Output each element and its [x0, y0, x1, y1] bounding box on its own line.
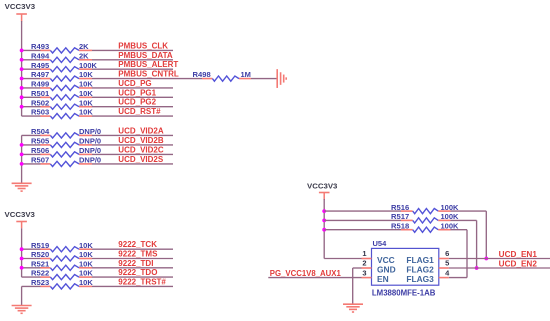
svg-text:PMBUS_ALERT: PMBUS_ALERT	[118, 60, 178, 69]
resistor R494	[41, 59, 51, 61]
wire PMBUS_CNTRL to R498	[173, 78, 202, 80]
svg-text:R502: R502	[31, 98, 49, 107]
svg-text:EN: EN	[377, 274, 389, 284]
svg-text:UCD_PG2: UCD_PG2	[118, 98, 156, 107]
junction at R494	[20, 58, 24, 62]
wire UCD_VID2S net	[22, 163, 41, 165]
wire 9222_TRST# net	[22, 285, 41, 287]
junction at R493	[20, 49, 24, 53]
wire bus to U54 pin 1	[324, 258, 361, 260]
wire R518 to pin 4	[449, 277, 467, 279]
svg-text:100K: 100K	[79, 61, 98, 70]
svg-text:VCC3V3: VCC3V3	[5, 210, 35, 219]
wire R517 right	[451, 219, 477, 221]
wire VCC3V3 bus (top left)	[21, 21, 23, 116]
wire VCC3V3 to R517	[324, 219, 401, 221]
wire VCC3V3 to R516	[324, 210, 401, 212]
wire PMBUS_CLK net	[22, 49, 41, 51]
svg-text:2K: 2K	[79, 42, 89, 51]
ground (below U54)	[343, 303, 363, 305]
svg-text:UCD_EN2: UCD_EN2	[499, 260, 538, 269]
svg-text:PG_VCC1V8_AUX1: PG_VCC1V8_AUX1	[270, 269, 342, 278]
junction at R502	[20, 105, 24, 109]
svg-text:R522: R522	[31, 269, 49, 278]
junction at R495	[20, 67, 24, 71]
svg-text:UCD_EN1: UCD_EN1	[499, 250, 538, 259]
wire UCD_VID2C net	[22, 153, 41, 155]
wire 9222_TMS net	[22, 258, 41, 260]
wire ground bus (R504-R507)	[21, 135, 23, 183]
svg-text:9222_TMS: 9222_TMS	[118, 250, 158, 259]
resistor R516	[401, 210, 413, 212]
pin 6 (FLAG1)	[439, 258, 449, 260]
resistor R507	[41, 163, 51, 165]
svg-text:R520: R520	[31, 250, 49, 259]
resistor R519	[41, 248, 51, 250]
wire VCC3V3 to R518	[324, 229, 401, 231]
svg-text:VCC: VCC	[377, 255, 395, 265]
svg-text:6: 6	[445, 249, 449, 258]
pin 2 (GND)	[362, 267, 372, 269]
svg-text:10K: 10K	[79, 250, 93, 259]
svg-text:LM3880MFE-1AB: LM3880MFE-1AB	[372, 288, 436, 297]
svg-text:UCD_VID2A: UCD_VID2A	[118, 126, 164, 135]
svg-text:UCD_VID2B: UCD_VID2B	[118, 136, 164, 145]
wire 9222_TDO net	[22, 276, 41, 278]
wire 9222_TCK net	[22, 248, 41, 250]
svg-text:R495: R495	[31, 61, 49, 70]
svg-text:10K: 10K	[79, 108, 93, 117]
resistor R506	[41, 153, 51, 155]
op-amp U54 body	[372, 248, 439, 285]
resistor R520	[41, 258, 51, 260]
svg-text:2: 2	[362, 259, 366, 268]
svg-text:UCD_PG: UCD_PG	[118, 79, 151, 88]
wire VCC3V3 bus (bottom left)	[21, 228, 23, 277]
resistor R493	[41, 49, 51, 51]
junction at R497	[20, 77, 24, 81]
svg-text:R499: R499	[31, 80, 49, 89]
svg-text:VCC3V3: VCC3V3	[307, 182, 337, 191]
svg-text:1: 1	[362, 249, 366, 258]
svg-text:GND: GND	[377, 264, 396, 274]
svg-text:FLAG2: FLAG2	[406, 264, 434, 274]
svg-text:10K: 10K	[79, 259, 93, 268]
svg-text:UCD_PG1: UCD_PG1	[118, 88, 156, 97]
resistor R495	[41, 68, 51, 70]
wire UCD_RST# net	[22, 115, 41, 117]
wire UCD_EN1	[449, 258, 550, 260]
pin 5 (FLAG2)	[439, 267, 449, 269]
svg-text:10K: 10K	[79, 89, 93, 98]
wire UCD_PG net	[22, 87, 41, 89]
svg-text:1M: 1M	[241, 70, 251, 79]
wire 9222_TDI net	[22, 267, 41, 269]
svg-text:R516: R516	[391, 203, 409, 212]
resistor R517	[401, 219, 413, 221]
wire PMBUS_DATA net	[22, 59, 41, 61]
pin 1 (VCC)	[362, 258, 372, 260]
svg-text:R517: R517	[391, 212, 409, 221]
svg-text:R503: R503	[31, 108, 49, 117]
wire R516 right	[451, 210, 487, 212]
resistor R501	[41, 96, 51, 98]
pin 4 (FLAG3)	[439, 277, 449, 279]
junction at R519	[20, 247, 24, 251]
junction at R518	[322, 228, 326, 232]
junction at R505	[20, 143, 24, 147]
wire U54 GND pin 2	[353, 267, 362, 269]
svg-text:FLAG1: FLAG1	[406, 255, 434, 265]
resistor R521	[41, 267, 51, 269]
svg-text:PMBUS_CNTRL: PMBUS_CNTRL	[118, 70, 179, 79]
svg-text:R494: R494	[31, 51, 50, 60]
svg-text:FLAG3: FLAG3	[406, 274, 434, 284]
svg-text:10K: 10K	[79, 80, 93, 89]
junction R516 output	[484, 257, 488, 261]
wire UCD_PG1 net	[22, 96, 41, 98]
svg-text:U54: U54	[373, 239, 388, 248]
svg-text:R498: R498	[193, 70, 211, 79]
junction at R516	[322, 209, 326, 213]
junction at R517	[322, 219, 326, 223]
wire R518 right	[451, 229, 468, 231]
svg-text:DNP/0: DNP/0	[79, 137, 101, 146]
wire PG_VCC1V8_AUX1 to pin 3	[268, 277, 361, 279]
svg-text:9222_TDO: 9222_TDO	[118, 268, 157, 277]
svg-text:R506: R506	[31, 146, 49, 155]
svg-text:R519: R519	[31, 241, 49, 250]
svg-text:9222_TDI: 9222_TDI	[118, 259, 153, 268]
svg-text:R493: R493	[31, 42, 49, 51]
svg-text:3: 3	[362, 268, 366, 277]
wire UCD_VID2A net	[22, 134, 41, 136]
junction at R501	[20, 95, 24, 99]
wire PMBUS_CNTRL net	[22, 78, 41, 80]
svg-text:R507: R507	[31, 156, 49, 165]
svg-text:9222_TRST#: 9222_TRST#	[118, 277, 166, 286]
resistor R498	[202, 78, 212, 80]
svg-text:2K: 2K	[79, 51, 89, 60]
resistor R522	[41, 276, 51, 278]
svg-text:10K: 10K	[79, 98, 93, 107]
ground (below R507)	[12, 182, 32, 184]
resistor R503	[41, 115, 51, 117]
svg-text:UCD_VID2S: UCD_VID2S	[118, 155, 164, 164]
wire R523 to ground	[21, 286, 23, 305]
resistor R523	[41, 285, 51, 287]
resistor R499	[41, 87, 51, 89]
svg-text:DNP/0: DNP/0	[79, 156, 101, 165]
resistor R502	[41, 106, 51, 108]
wire UCD_VID2B net	[22, 144, 41, 146]
svg-text:10K: 10K	[79, 241, 93, 250]
ground (right of R498)	[276, 69, 278, 88]
svg-text:R501: R501	[31, 89, 49, 98]
wire PMBUS_ALERT net	[22, 68, 41, 70]
svg-text:10K: 10K	[79, 70, 93, 79]
svg-text:10K: 10K	[79, 269, 93, 278]
svg-text:VCC3V3: VCC3V3	[5, 2, 35, 11]
ground (below R523)	[12, 305, 32, 307]
junction at R521	[20, 266, 24, 270]
svg-text:R518: R518	[391, 221, 409, 230]
svg-text:10K: 10K	[79, 278, 93, 287]
wire VCC3V3 bus (right)	[323, 199, 325, 259]
pin 3 (EN)	[362, 277, 372, 279]
svg-text:4: 4	[445, 268, 450, 277]
svg-text:R523: R523	[31, 278, 49, 287]
svg-text:DNP/0: DNP/0	[79, 146, 101, 155]
svg-text:9222_TCK: 9222_TCK	[118, 240, 157, 249]
resistor R504	[41, 134, 51, 136]
wire UCD_EN2	[449, 267, 550, 269]
svg-text:UCD_RST#: UCD_RST#	[118, 107, 161, 116]
svg-text:R504: R504	[31, 127, 50, 136]
svg-text:R521: R521	[31, 259, 49, 268]
wire R498 to ground	[251, 78, 277, 80]
wire UCD_PG2 net	[22, 106, 41, 108]
svg-text:R497: R497	[31, 70, 49, 79]
resistor R497	[41, 78, 51, 80]
resistor R518	[401, 229, 413, 231]
svg-text:DNP/0: DNP/0	[79, 127, 101, 136]
svg-text:R505: R505	[31, 137, 49, 146]
svg-text:5: 5	[445, 259, 449, 268]
svg-text:PMBUS_CLK: PMBUS_CLK	[118, 41, 168, 50]
junction at R506	[20, 153, 24, 157]
junction R517 output	[475, 266, 479, 270]
junction at R507	[20, 162, 24, 166]
resistor R505	[41, 144, 51, 146]
junction at R520	[20, 257, 24, 261]
svg-text:PMBUS_DATA: PMBUS_DATA	[118, 51, 173, 60]
svg-text:UCD_VID2C: UCD_VID2C	[118, 145, 164, 154]
junction at R499	[20, 86, 24, 90]
